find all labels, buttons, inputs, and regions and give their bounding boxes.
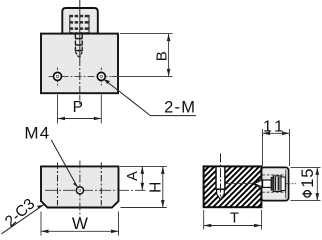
svg-text:A: A — [125, 171, 141, 181]
svg-text:M4: M4 — [24, 123, 50, 142]
svg-text:H: H — [148, 182, 165, 193]
svg-text:2-C3: 2-C3 — [2, 195, 38, 230]
svg-text:15: 15 — [299, 168, 317, 188]
svg-text:W: W — [72, 214, 88, 233]
svg-text:11: 11 — [263, 119, 287, 136]
svg-text:2-M: 2-M — [164, 98, 196, 116]
svg-text:B: B — [153, 51, 170, 61]
svg-text:T: T — [230, 209, 239, 226]
svg-text:P: P — [73, 99, 83, 116]
